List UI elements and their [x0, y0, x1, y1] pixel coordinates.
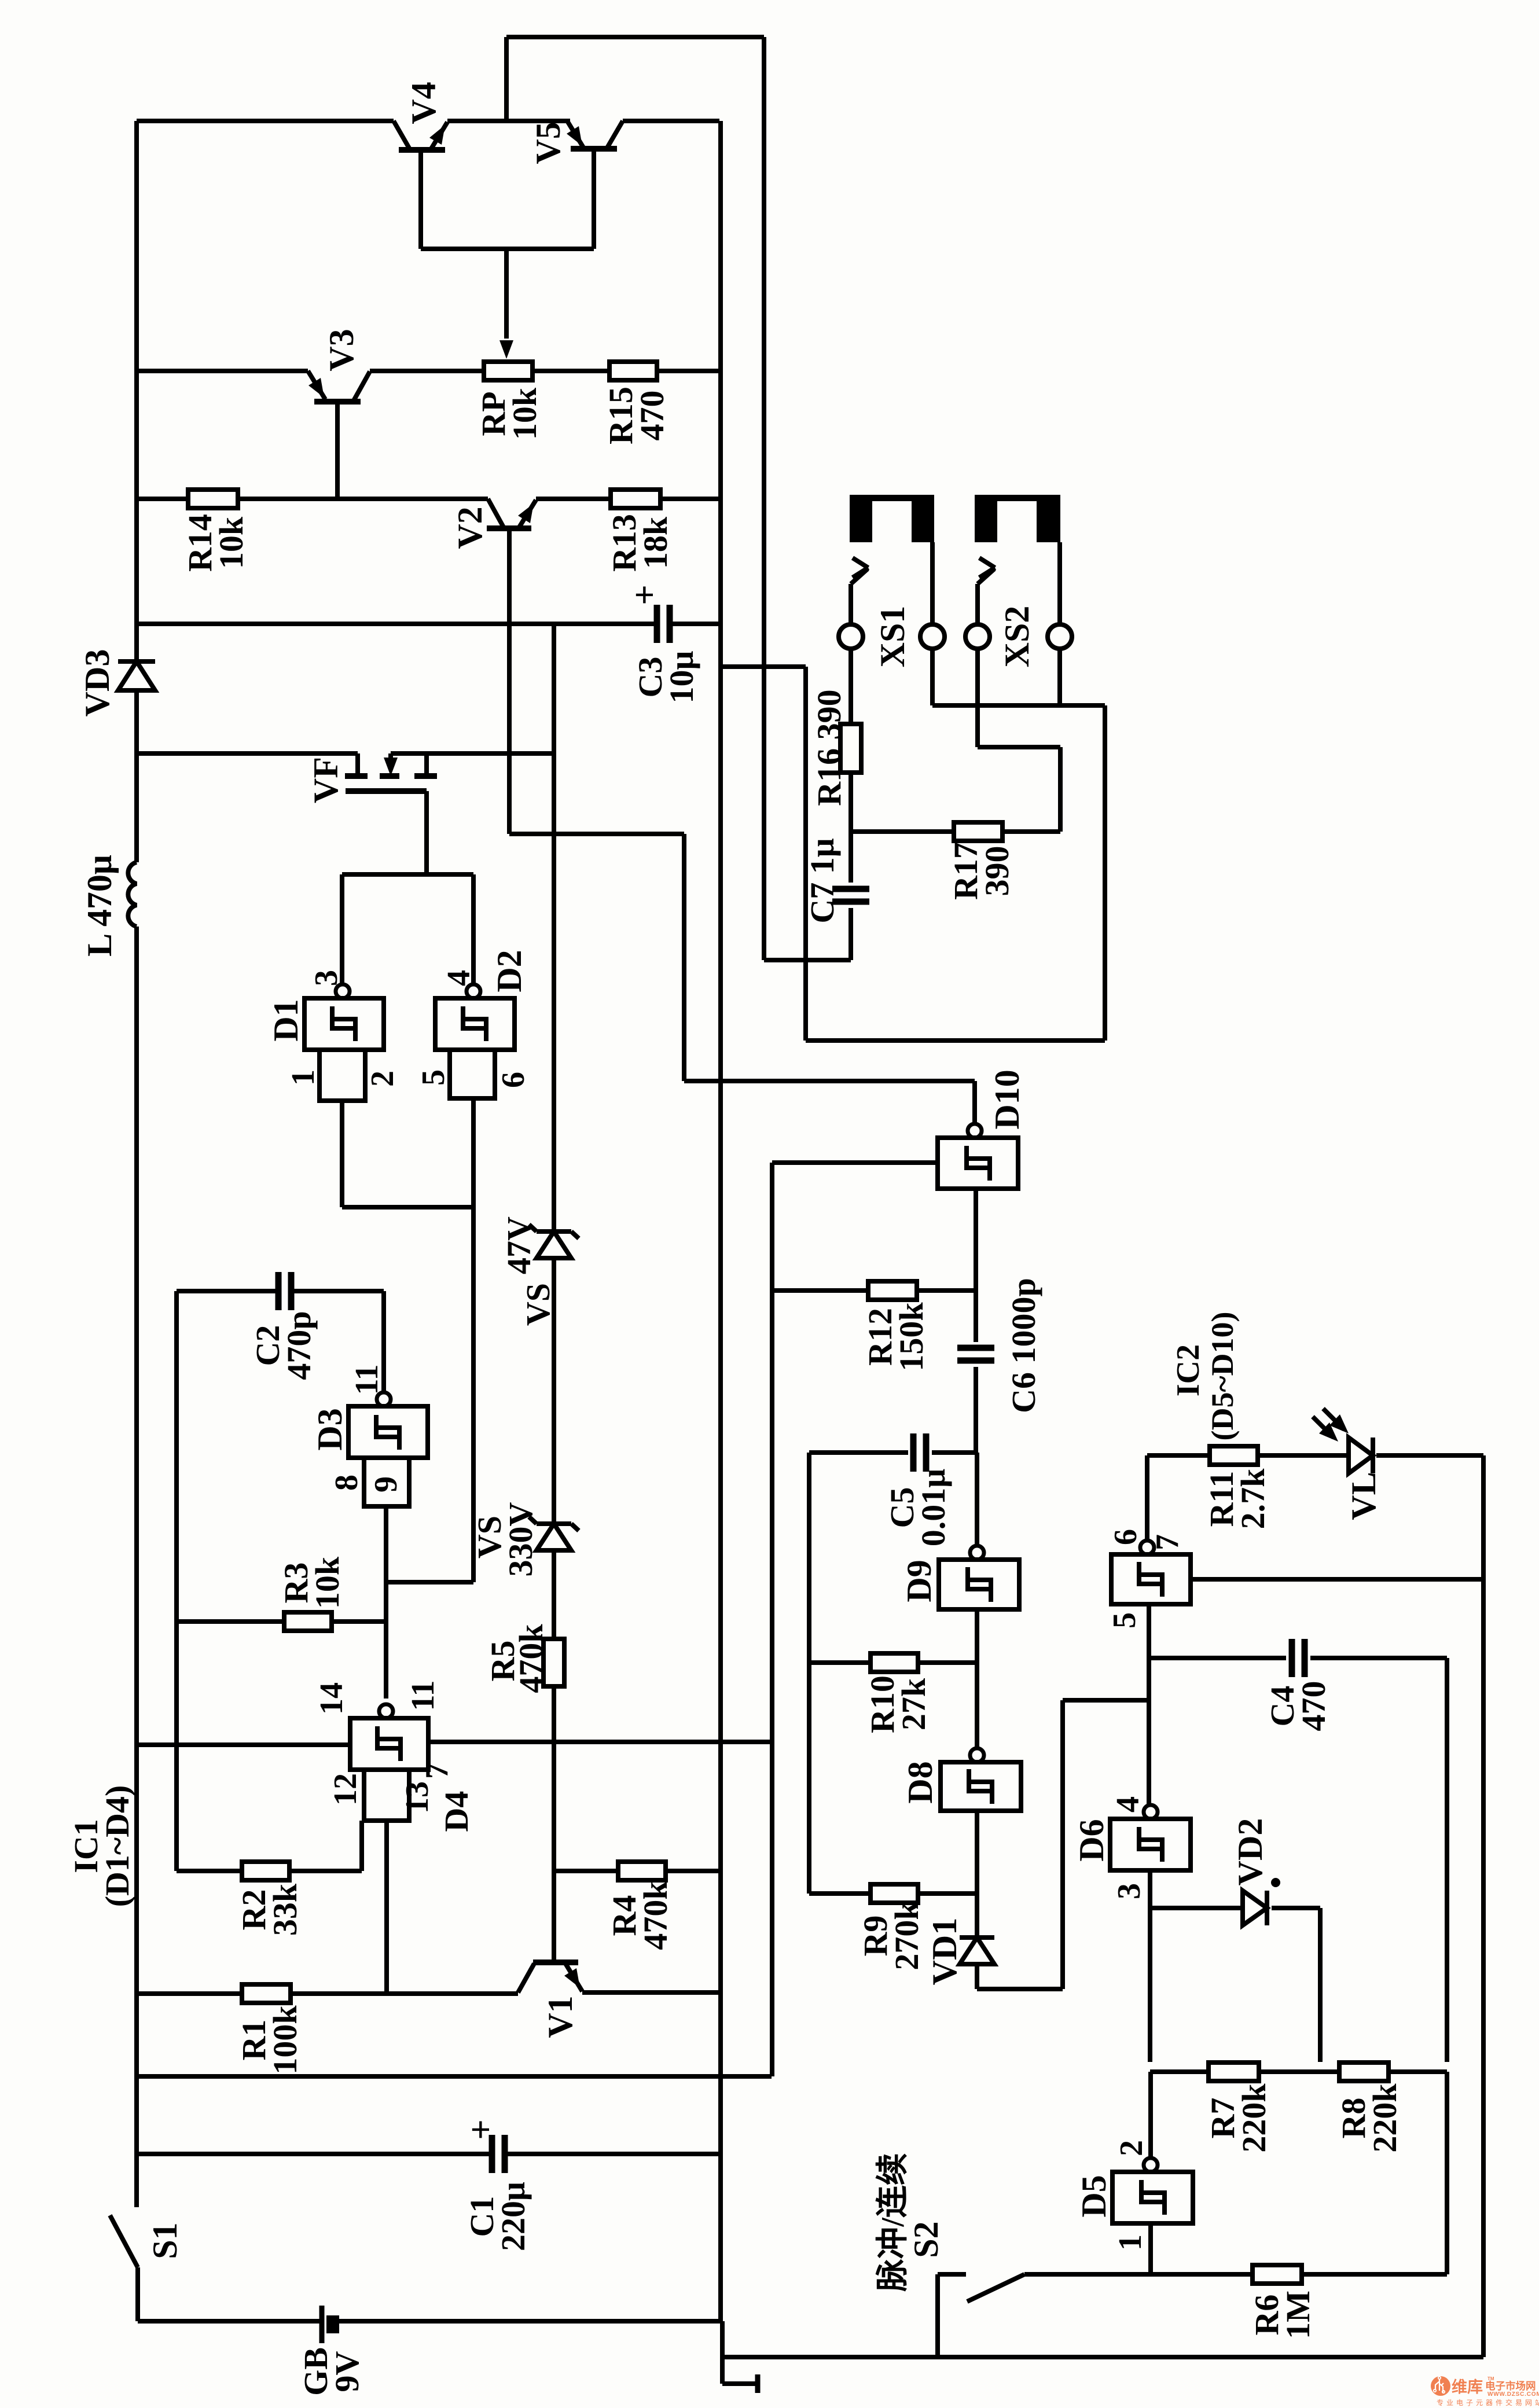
wire C1 to ground bus	[505, 2152, 721, 2156]
svg-text:27k: 27k	[895, 1678, 932, 1730]
wire D2 input down to D3 input node	[471, 1098, 476, 1582]
wire C2 line	[177, 1289, 279, 1293]
svg-text:D5: D5	[1075, 2175, 1113, 2217]
wire bus D lower	[1445, 2072, 1449, 2274]
svg-text:C6 1000p: C6 1000p	[1005, 1278, 1042, 1413]
pin 3 of D6	[1111, 1883, 1147, 1899]
wire R11 to LED	[1258, 1453, 1349, 1458]
svg-text:D2: D2	[490, 950, 528, 992]
wire drive bus vertical	[762, 37, 766, 960]
svg-text:L 470μ: L 470μ	[80, 855, 119, 957]
svg-text:12: 12	[328, 1773, 363, 1806]
label C5 0.01u	[883, 1469, 952, 1547]
connector XS2 pad	[975, 495, 1060, 542]
switch S1	[110, 2215, 138, 2267]
gate D6	[1110, 1805, 1191, 1870]
svg-text:10k: 10k	[212, 516, 250, 569]
gate D2	[435, 984, 515, 1098]
wire D4 pin7 east	[428, 1740, 772, 1744]
wire D1 output riser	[340, 874, 344, 984]
connector XS1 pad	[850, 495, 934, 542]
wire D5 input down	[1148, 2223, 1153, 2274]
resistor R3 10k	[284, 1612, 332, 1631]
pin 1 of D5	[1112, 2234, 1148, 2251]
wire D7 right to bus	[1191, 1577, 1483, 1582]
wire R8 to bus D	[1389, 2069, 1447, 2074]
wire VD1 to riser	[977, 1987, 1063, 1991]
wire XS1 right terminal leg	[930, 649, 935, 705]
svg-text:维库: 维库	[1452, 2378, 1483, 2396]
wire R7 to R8	[1259, 2069, 1339, 2074]
svg-text:3: 3	[1111, 1883, 1147, 1899]
resistor R9 270k	[870, 1884, 918, 1903]
svg-text:9: 9	[368, 1476, 404, 1492]
svg-text:470p: 470p	[280, 1311, 318, 1380]
label C1 220u	[463, 2182, 532, 2251]
wire bus C to R12	[772, 1288, 868, 1293]
gate D5	[1112, 2158, 1193, 2223]
wire LED to right bus	[1376, 1453, 1483, 1458]
wire D8 input down to VD1	[975, 1811, 979, 1938]
transistor V3	[308, 371, 370, 402]
svg-text:6: 6	[1108, 1529, 1144, 1545]
wire base chain down	[682, 834, 686, 1081]
wire R3 left	[177, 1619, 284, 1624]
svg-text:7: 7	[419, 1763, 455, 1779]
wire output down leg	[803, 667, 808, 1041]
wire RP to R15	[532, 369, 609, 373]
led VL	[1313, 1409, 1373, 1473]
gate D1	[304, 984, 384, 1101]
wire D10 left to bus C	[772, 1160, 938, 1165]
svg-text:13: 13	[399, 1781, 435, 1814]
svg-text:VF: VF	[307, 757, 345, 803]
wire S1 to battery	[138, 2267, 322, 2321]
wire bottom return	[722, 2355, 1483, 2359]
label XS2	[998, 606, 1036, 668]
label V2	[451, 506, 489, 549]
svg-text:220k: 220k	[1366, 2083, 1404, 2153]
wire V2 base down	[507, 528, 512, 834]
wire V3 to RP	[370, 369, 484, 373]
svg-text:270k: 270k	[888, 1901, 925, 1970]
gate D4	[350, 1704, 428, 1821]
wire D1 input down	[340, 1101, 344, 1207]
gate D7	[1111, 1541, 1191, 1604]
wire R2 left	[177, 1869, 242, 1873]
wire D7 output riser	[1145, 1455, 1149, 1541]
capacitor C6 1000p	[957, 1348, 994, 1361]
svg-text:47V: 47V	[500, 1216, 538, 1274]
wire R1 to V1	[291, 1991, 518, 1996]
label R17 390	[947, 842, 1016, 900]
pin 3 of D1	[308, 970, 344, 986]
wire rail to V3 (RP row)	[137, 369, 308, 373]
svg-text:3: 3	[308, 970, 344, 986]
wire right bus	[1481, 1455, 1486, 2357]
wire sense chain vertical	[552, 624, 556, 1231]
wire rail inductor to S1	[134, 927, 139, 2207]
label V3	[322, 329, 361, 371]
wire top feedback riser	[504, 37, 509, 121]
wire R17 to XS2 left	[978, 649, 1060, 832]
pin 11 of D3	[349, 1365, 385, 1395]
svg-text:V1: V1	[541, 1995, 579, 2038]
wire V3 base down	[335, 402, 340, 499]
wire node A to R17	[851, 829, 954, 834]
svg-text:100k: 100k	[266, 2005, 304, 2075]
zener VS 330V	[529, 1517, 579, 1550]
svg-text:10k: 10k	[506, 387, 543, 440]
wire D1/D2 output link	[342, 872, 473, 877]
svg-text:R16 390: R16 390	[810, 689, 848, 806]
wire battery minus to ground bus	[339, 2319, 721, 2324]
wire R9 to D8 input	[918, 1891, 977, 1896]
pin 2 of D1	[365, 1071, 401, 1087]
wire V4/V5 line to V5	[568, 119, 572, 123]
wire top rail to V4	[137, 119, 394, 123]
label VD3	[78, 649, 116, 717]
svg-text:V2: V2	[451, 506, 489, 549]
pin 6 of D7	[1108, 1529, 1144, 1545]
wire VDD link to IC2 bus	[137, 2074, 772, 2079]
resistor R10 27k	[870, 1653, 918, 1672]
wire C5 node west	[809, 1450, 908, 1455]
wire zener to R5	[552, 1550, 556, 1639]
capacitor C1 220u	[461, 2119, 505, 2173]
svg-text:VD1: VD1	[925, 1918, 964, 1986]
label R5 470k	[484, 1624, 550, 1693]
svg-text:1: 1	[1112, 2234, 1148, 2251]
label R15 470	[602, 387, 671, 444]
svg-text:D3: D3	[311, 1408, 349, 1450]
svg-text:1: 1	[285, 1069, 321, 1086]
wire C2 to D3 output	[291, 1291, 384, 1392]
label R3 10k	[277, 1556, 346, 1609]
wire VD1 anode down	[975, 1964, 979, 1989]
label IC1 (D1~D4)	[67, 1785, 136, 1907]
svg-text:(D1~D4): (D1~D4)	[98, 1785, 136, 1907]
svg-text:电子市场网: 电子市场网	[1485, 2380, 1536, 2392]
svg-text:18k: 18k	[637, 516, 674, 569]
node XS2 right terminal	[1048, 624, 1072, 649]
svg-text:C7 1μ: C7 1μ	[803, 838, 841, 923]
label D5	[1075, 2175, 1113, 2217]
resistor R4 470k	[618, 1862, 666, 1880]
gate D8	[941, 1748, 1021, 1811]
svg-text:D8: D8	[901, 1761, 939, 1803]
svg-text:5: 5	[1107, 1612, 1143, 1628]
label VL	[1345, 1472, 1383, 1520]
wire rail to C1	[137, 2152, 492, 2156]
wire VD2 line	[1150, 1906, 1243, 1910]
svg-text:+: +	[461, 2119, 501, 2139]
label D3	[311, 1408, 349, 1450]
svg-text:VS: VS	[519, 1283, 557, 1326]
watermark logo	[1431, 2376, 1539, 2407]
wire R12 to D10 input node	[917, 1288, 976, 1293]
wire D10 input down	[974, 1189, 978, 1342]
svg-text:11: 11	[405, 1681, 441, 1711]
transistor VF mosfet	[345, 753, 437, 874]
wire XS2 right terminal leg	[1057, 649, 1062, 705]
wire C7 to drive bus corner	[764, 908, 851, 960]
pin 6 of D2	[495, 1072, 531, 1088]
label D9	[900, 1560, 938, 1602]
label R13 18k	[605, 514, 674, 572]
wire R7 line from D5 node	[1150, 2069, 1209, 2074]
transistor V1	[518, 1962, 582, 1992]
wire V+ rail top segment	[134, 121, 139, 661]
svg-text:330V: 330V	[502, 1502, 539, 1576]
node XS1 right terminal	[920, 624, 945, 649]
svg-text:1M: 1M	[1279, 2291, 1317, 2339]
wire R3 right	[332, 1619, 386, 1624]
svg-text:TM: TM	[1487, 2376, 1494, 2381]
svg-text:S1: S1	[146, 2222, 184, 2259]
pin 2 of D5	[1114, 2140, 1149, 2156]
resistor R16 390	[840, 724, 861, 773]
svg-text:脉冲/连续: 脉冲/连续	[875, 2153, 911, 2292]
zener VS 47V	[529, 1225, 579, 1258]
wire C6 to C5 node	[974, 1367, 978, 1453]
wire rail VD3 to inductor	[134, 690, 139, 862]
label S2 pulse/continuous	[875, 2153, 945, 2292]
label R12 150k	[861, 1302, 930, 1372]
switch S2	[938, 2274, 1024, 2357]
wire C5 to D10 node	[932, 1450, 976, 1455]
svg-text:470: 470	[1295, 1681, 1332, 1731]
capacitor C5 0.01u	[913, 1433, 926, 1472]
wire V4-V5 base link	[421, 247, 594, 251]
wire D5 output riser	[1148, 2072, 1153, 2159]
svg-text:470k: 470k	[637, 1881, 674, 1950]
label R14 10k	[181, 514, 250, 572]
transistor V2	[487, 499, 536, 528]
electrode XS1 left probe	[839, 558, 868, 649]
wire R4 right	[666, 1869, 721, 1873]
svg-text:V3: V3	[322, 329, 361, 371]
wire XS right common	[932, 703, 1105, 708]
label IC2 (D5~D10)	[1170, 1311, 1240, 1440]
svg-text:XS2: XS2	[998, 606, 1036, 668]
gate D9	[939, 1546, 1019, 1609]
label VD2	[1231, 1818, 1269, 1886]
wire D9 output riser	[975, 1453, 979, 1546]
pin 5 of D2	[416, 1069, 451, 1086]
capacitor C2 470p	[278, 1272, 291, 1310]
resistor R11 2.7k	[1210, 1446, 1258, 1465]
pin 11 of D4	[405, 1681, 441, 1711]
wire D1-D2 input link	[342, 1205, 473, 1209]
pin 4 of D6	[1110, 1796, 1146, 1813]
pin 13 of D4	[399, 1781, 435, 1814]
potentiometer RP 10k	[484, 362, 532, 380]
resistor R1 100k	[242, 1984, 291, 2003]
pin 7 of D4	[419, 1763, 455, 1779]
label D10	[988, 1069, 1026, 1129]
wire XS2 right to pad	[1057, 542, 1062, 624]
svg-text:2.7k: 2.7k	[1234, 1468, 1272, 1530]
pin 4 of D2	[441, 970, 477, 986]
label R9 270k	[857, 1901, 925, 1970]
wire V5 base down	[592, 149, 596, 249]
wire rail to R14	[137, 497, 188, 501]
pin 8 of D3	[329, 1475, 365, 1491]
svg-text:390: 390	[978, 846, 1016, 896]
wire R11 line west	[1147, 1453, 1210, 1458]
wire bus C upper	[770, 1163, 774, 1291]
wire D9 input to D8 output	[975, 1609, 979, 1748]
label R11 2.7k	[1203, 1468, 1272, 1530]
capacitor C7 1u	[832, 889, 869, 902]
label R2 33k	[235, 1883, 304, 1936]
label S1	[146, 2222, 184, 2259]
label D6	[1072, 1819, 1111, 1861]
svg-text:4: 4	[1110, 1796, 1146, 1813]
wire D4 input stub to R1 node	[384, 1821, 389, 1994]
svg-text:14: 14	[314, 1682, 350, 1715]
svg-text:D4: D4	[438, 1791, 475, 1832]
wire output right riser	[1103, 705, 1107, 1041]
label C6 1000p	[1005, 1278, 1042, 1413]
wire base chain to D10 output	[684, 1079, 975, 1083]
label C3 10u	[631, 650, 700, 703]
wire R10 line west	[809, 1660, 870, 1665]
wire V5 emitter east	[623, 119, 719, 123]
label VD1	[925, 1918, 964, 1986]
svg-text:专业电子元器件交易网站: 专业电子元器件交易网站	[1437, 2398, 1539, 2407]
svg-text:D1: D1	[267, 999, 305, 1041]
label VS 47V	[500, 1216, 557, 1326]
svg-text:VD3: VD3	[78, 649, 116, 717]
label GB 9V	[297, 2347, 366, 2396]
wire zener to zener	[552, 1258, 556, 1524]
wire D6 input down to R7 line	[1148, 1870, 1152, 2062]
resistor R2 33k	[242, 1862, 289, 1880]
label R10 27k	[864, 1675, 932, 1733]
wire bus C lower	[770, 1291, 774, 2076]
label R7 220k	[1204, 2083, 1273, 2153]
wire D3 node to D1/D2 node	[385, 1580, 473, 1584]
inductor L 470u	[128, 862, 137, 927]
svg-text:2: 2	[1114, 2140, 1149, 2156]
svg-text:10k: 10k	[308, 1556, 346, 1609]
battery GB 9V	[322, 2306, 333, 2343]
wire C4 right to bus D	[1310, 1658, 1447, 2062]
pin 14 of D4	[314, 1682, 350, 1715]
resistor R12 150k	[868, 1281, 917, 1300]
label V4	[405, 82, 443, 124]
label R4 470k	[605, 1881, 674, 1950]
wire wiper arrow to RP	[499, 249, 513, 359]
label C4 470	[1263, 1681, 1332, 1731]
wire D7 input down	[1147, 1604, 1151, 1806]
resistor R13 18k	[611, 490, 660, 508]
label L 470u	[80, 855, 119, 957]
svg-text:V4: V4	[405, 82, 443, 124]
svg-text:8: 8	[329, 1475, 365, 1491]
wire C4 line	[1149, 1656, 1286, 1660]
pin 7 of D7	[1149, 1534, 1185, 1550]
gate D3	[348, 1392, 428, 1506]
wire output bottom run	[806, 1038, 1105, 1043]
wire riser to D6 output node	[1063, 1700, 1149, 1989]
resistor R6 1M	[1252, 2265, 1302, 2284]
svg-text:5: 5	[416, 1069, 451, 1086]
gate D10	[938, 1124, 1018, 1189]
svg-text:IC2: IC2	[1170, 1344, 1206, 1396]
svg-text:+: +	[625, 584, 664, 605]
wire D3 input chain down	[384, 1506, 388, 1699]
wire V2 emitter to R13	[536, 497, 611, 501]
diode VD2	[1243, 1878, 1280, 1925]
pin 9 of D3	[368, 1476, 404, 1492]
pin 12 of D4	[328, 1773, 363, 1806]
wire R13 to ground bus	[660, 497, 719, 501]
svg-text:S2: S2	[907, 2221, 945, 2258]
pin 1 of D1	[285, 1069, 321, 1086]
transistor V4	[394, 121, 447, 150]
wire D2 output riser	[471, 874, 476, 984]
wire R9 line west	[809, 1891, 870, 1896]
resistor R7 220k	[1209, 2063, 1259, 2081]
wire R5 down to V1 base	[552, 1686, 556, 1962]
pin 5 of D7	[1107, 1612, 1143, 1628]
svg-text:VD2: VD2	[1231, 1818, 1269, 1886]
wire node A to C7	[849, 832, 853, 883]
svg-text:9V: 9V	[328, 2351, 366, 2392]
svg-text:D9: D9	[900, 1560, 938, 1602]
wire XS1 right to pad	[930, 542, 935, 624]
label V1	[541, 1995, 579, 2038]
svg-text:V5: V5	[529, 122, 567, 164]
label V5	[529, 122, 567, 164]
label R8 220k	[1335, 2083, 1404, 2153]
label D2	[490, 950, 528, 992]
wire D4 input stub to R2	[359, 1821, 364, 1871]
label C2 470p	[249, 1311, 318, 1380]
wire D10 output riser	[972, 1081, 977, 1124]
label D8	[901, 1761, 939, 1803]
label R16 390	[810, 689, 848, 806]
wire R1 line (V1 collector west)	[137, 1991, 242, 1996]
transistor V5	[567, 121, 623, 149]
diode VD3	[118, 661, 155, 690]
diode VD1	[960, 1938, 994, 1964]
ground stub	[722, 2374, 758, 2393]
wire V4 base down	[418, 150, 423, 249]
wire rail to C3	[137, 622, 658, 626]
wire C2 left leg	[174, 1291, 179, 1871]
wire R6 to bus D	[1302, 2272, 1447, 2277]
svg-text:220k: 220k	[1235, 2083, 1273, 2153]
wire VD2 to R7-R8 node	[1272, 1908, 1320, 2062]
svg-text:33k: 33k	[266, 1883, 304, 1936]
wire base chain east	[509, 832, 684, 836]
wire top feedback bus	[506, 35, 764, 39]
wire rail to VF drain	[137, 751, 358, 756]
resistor R17 390	[954, 822, 1002, 841]
label C7 1u	[803, 838, 841, 923]
svg-text:150k: 150k	[892, 1302, 930, 1372]
wire C3 to ground bus	[670, 622, 719, 626]
svg-text:2: 2	[365, 1071, 401, 1087]
label VF	[307, 757, 345, 803]
label D1	[267, 999, 305, 1041]
label RP 10k	[475, 387, 543, 440]
electrode XS2 left probe	[965, 558, 995, 649]
